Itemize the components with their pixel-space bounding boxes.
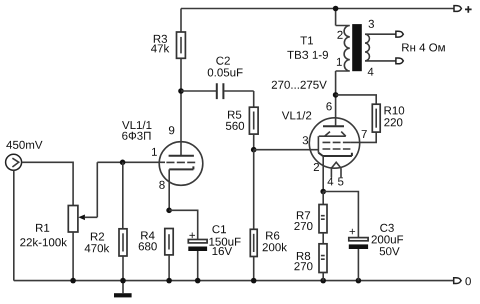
wire cathode node to R7: [322, 192, 324, 205]
capacitor C2: [181, 57, 254, 100]
wire grid node to pentode pin 3: [254, 149, 319, 151]
potentiometer R1: [20, 162, 97, 246]
wire input to R1: [22, 162, 74, 205]
transformer T1: [287, 20, 396, 76]
cathode VL1/1: [169, 166, 193, 169]
resistor R8: [294, 244, 327, 273]
wire R8 to bottom rail: [322, 273, 324, 281]
node bottom R8: [320, 278, 326, 284]
wire C2 to R5: [253, 91, 255, 107]
resistor R10: [372, 104, 404, 132]
wire R3 column: [180, 9, 182, 157]
wire screen to R10: [350, 132, 376, 142]
resistor R7: [294, 205, 327, 233]
node top rail T1: [333, 6, 339, 12]
resistor R3: [151, 32, 185, 58]
resistor R2: [85, 229, 127, 256]
wire cathode node to C1: [169, 210, 198, 239]
node bottom C3: [356, 278, 362, 284]
wire grid node down to R6: [253, 150, 255, 230]
node bottom R2 ground: [120, 278, 126, 284]
screen grid VL1/2 dashes: [323, 141, 351, 143]
wire R4 to bottom rail: [168, 255, 170, 281]
heater VL1/2: [331, 162, 341, 177]
wire R5 to grid node: [253, 134, 255, 150]
wire R1 bottom to rail: [72, 232, 74, 281]
wire grid node down to R2: [122, 162, 124, 229]
cathode VL1/2: [318, 153, 352, 156]
label 450mV: [6, 141, 42, 149]
node cathode VL1/2: [320, 189, 326, 195]
node bottom R4: [166, 278, 172, 284]
wire plate supply column: [335, 9, 337, 127]
wire R7 to R8: [322, 233, 324, 244]
wire cathode VL1/1 down: [168, 169, 170, 210]
node bottom R6: [251, 278, 257, 284]
input connector X1: [6, 154, 22, 170]
resistor R4: [139, 229, 174, 255]
wire screen supply to R10: [336, 95, 377, 104]
terminal output top: [396, 31, 403, 37]
terminal 0: [454, 278, 461, 284]
label 270...275V: [272, 81, 327, 89]
anode VL1/2: [323, 125, 344, 127]
wire input shield down: [13, 170, 15, 280]
resistor R5: [226, 107, 258, 134]
node grid VL1/1: [120, 160, 126, 166]
wire cathode node to C3: [323, 192, 358, 238]
wire wiper to grid VL1/1: [97, 161, 165, 163]
T1 core: [352, 24, 362, 71]
wire top rail: [181, 8, 454, 10]
ground: [114, 281, 132, 298]
suppressor/beam plates VL1/2: [319, 132, 346, 137]
node cathode VL1/1: [166, 208, 172, 214]
capacitor C3: [349, 224, 403, 281]
grid bar VL1/2: [317, 136, 319, 153]
capacitor C1: [188, 225, 240, 280]
T1 primary winding: [336, 26, 350, 72]
label Rn 4 Om: [402, 43, 445, 51]
wire bottom rail: [14, 280, 454, 282]
node grid VL1/2: [251, 147, 257, 153]
wire R6 to bottom rail: [253, 257, 255, 281]
wire R2 to bottom rail: [122, 256, 124, 281]
tube VL1/1 triode: [122, 121, 203, 189]
node bottom R1: [70, 278, 76, 284]
T1 secondary winding: [365, 34, 396, 61]
node anode VL1/1 junction: [178, 88, 184, 94]
wire cathode VL1/2 down: [322, 156, 324, 191]
control grid VL1/2 dashes: [323, 148, 351, 150]
anode VL1/1: [169, 155, 194, 157]
tube VL1/2 pentode: [282, 102, 367, 185]
terminal + (plus supply): [454, 6, 461, 12]
node screen supply: [333, 92, 339, 98]
node bottom C1: [195, 278, 201, 284]
resistor R6: [250, 229, 287, 256]
grid VL1/1 dashes: [166, 161, 195, 163]
terminal output bottom: [396, 58, 403, 64]
